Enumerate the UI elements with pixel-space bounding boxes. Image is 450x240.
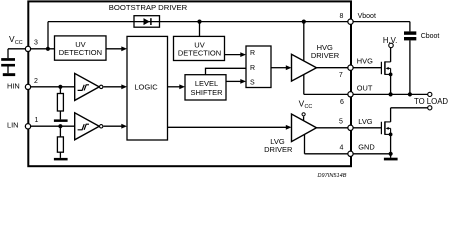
- svg-text:LEVEL: LEVEL: [195, 79, 218, 88]
- svg-text:OUT: OUT: [357, 83, 373, 92]
- svg-text:8: 8: [339, 13, 343, 20]
- svg-text:Cboot: Cboot: [421, 33, 440, 40]
- svg-text:HVG: HVG: [357, 56, 373, 65]
- svg-text:H.V.: H.V.: [383, 36, 397, 45]
- svg-text:CC: CC: [15, 40, 23, 46]
- svg-text:HIN: HIN: [7, 81, 20, 90]
- svg-text:3: 3: [34, 40, 38, 47]
- svg-text:CC: CC: [305, 104, 313, 110]
- svg-text:1: 1: [34, 117, 38, 124]
- svg-text:R: R: [250, 65, 255, 72]
- svg-text:2: 2: [34, 78, 38, 85]
- svg-text:SHIFTER: SHIFTER: [190, 88, 223, 97]
- svg-text:LVG: LVG: [358, 117, 372, 126]
- svg-text:D97IN514B: D97IN514B: [318, 173, 347, 179]
- svg-text:Vboot: Vboot: [358, 13, 376, 20]
- svg-text:TO LOAD: TO LOAD: [414, 97, 448, 106]
- svg-text:GND: GND: [358, 143, 374, 152]
- svg-text:4: 4: [339, 145, 343, 152]
- svg-text:DRIVER: DRIVER: [264, 145, 293, 154]
- svg-text:7: 7: [339, 72, 343, 79]
- svg-text:LOGIC: LOGIC: [134, 83, 158, 92]
- svg-text:BOOTSTRAP DRIVER: BOOTSTRAP DRIVER: [109, 3, 188, 12]
- svg-text:5: 5: [339, 119, 343, 126]
- svg-text:6: 6: [340, 99, 344, 106]
- svg-text:LIN: LIN: [7, 120, 19, 129]
- svg-text:S: S: [250, 79, 255, 86]
- svg-text:DETECTION: DETECTION: [178, 48, 221, 57]
- svg-text:R: R: [250, 50, 255, 57]
- svg-text:DRIVER: DRIVER: [311, 51, 340, 60]
- svg-text:DETECTION: DETECTION: [59, 48, 102, 57]
